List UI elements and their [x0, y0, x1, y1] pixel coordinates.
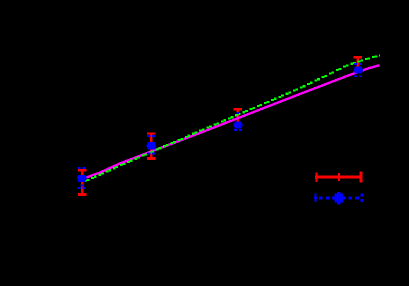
blue error bar point 3: [234, 129, 242, 131]
legend red errorbar sample: [315, 171, 362, 182]
red error bar point 3: [234, 108, 242, 126]
blue square marker 3: [233, 112, 242, 129]
green dashed fit line: [84, 54, 380, 182]
blue error bar point 4: [354, 64, 362, 76]
blue square marker 1: [77, 175, 86, 187]
red error bar point 1: [78, 169, 86, 196]
red error bar point 4: [354, 56, 362, 73]
magenta solid fit line: [81, 65, 380, 179]
blue error bar point 1: [78, 168, 86, 188]
legend blue marker: [332, 192, 346, 204]
blue square marker 2: [147, 142, 156, 149]
legend blue dashed sample: [314, 192, 363, 204]
blue square marker 4: [353, 66, 362, 73]
blue error bar point 2: [147, 136, 155, 154]
red error bar point 2: [147, 132, 155, 159]
legend blue right cap: [361, 194, 364, 203]
legend blue left cap: [314, 194, 317, 203]
